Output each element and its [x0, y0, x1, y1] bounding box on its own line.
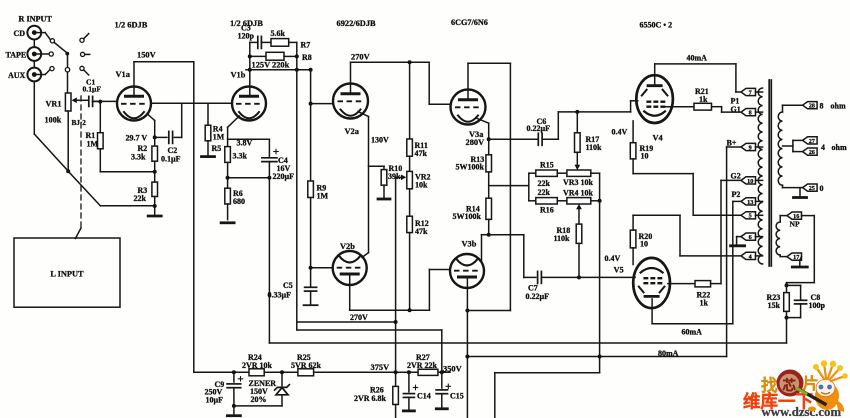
wire VR2 wiper drop to 375V row: [395, 177, 397, 372]
tube V2b: [333, 251, 367, 285]
svg-text:V2a: V2a: [345, 127, 360, 136]
svg-text:6: 6: [749, 234, 752, 241]
ground pin17: [799, 260, 801, 265]
svg-text:V4: V4: [653, 134, 664, 143]
svg-text:40mA: 40mA: [687, 54, 708, 63]
ladder left vertical: [249, 42, 251, 69]
node V3b cathode: [465, 309, 469, 313]
resistor R14 5W100k: [486, 198, 492, 219]
node R5 R6 junction: [226, 176, 230, 180]
wire V2b row up to V3b grid: [428, 270, 430, 311]
wire power row 375V: [194, 371, 450, 373]
zener diode 150V: [281, 372, 283, 387]
wire R20 to V5 cathode: [632, 248, 634, 265]
ground R10: [378, 198, 390, 201]
pin tag 13: [741, 198, 756, 205]
wire R19 to pin5 row: [632, 159, 634, 174]
pin tag 4: [741, 252, 756, 259]
svg-text:BJ·2: BJ·2: [72, 119, 87, 127]
wire R17 to VR3 wiper: [576, 152, 578, 166]
svg-text:P2: P2: [732, 190, 741, 199]
svg-text:2VR 22k: 2VR 22k: [407, 361, 438, 370]
svg-text:5W100k: 5W100k: [453, 212, 482, 221]
svg-text:110k: 110k: [586, 143, 603, 152]
wire V1a grid: [93, 100, 118, 102]
wire V3a plate drop to V3b cathode row: [509, 63, 511, 310]
pin tag 28: [803, 102, 818, 109]
svg-text:3.3k: 3.3k: [131, 153, 146, 162]
wire 270V rail: [351, 61, 430, 63]
wire row R8-to-350V y330: [297, 329, 442, 331]
svg-text:R INPUT: R INPUT: [19, 15, 53, 24]
wire power row right segment: [495, 372, 600, 374]
svg-text:V3b: V3b: [462, 240, 477, 249]
svg-text:1/2 6DJB: 1/2 6DJB: [115, 21, 148, 30]
wire bridge right vertical to supply row: [599, 173, 601, 372]
tube V2a: [333, 84, 368, 119]
pin tag 25: [803, 184, 818, 191]
svg-text:22k: 22k: [538, 188, 551, 197]
ground secondary 0 tap: [799, 188, 801, 196]
wire V3a cathode: [476, 118, 489, 123]
svg-text:0.1µF: 0.1µF: [83, 85, 102, 94]
svg-text:280V: 280V: [466, 138, 485, 147]
svg-text:VR4 10k: VR4 10k: [563, 189, 594, 198]
svg-text:1M: 1M: [87, 140, 99, 149]
svg-text:L INPUT: L INPUT: [50, 270, 84, 279]
wire VR2 wiper: [401, 174, 406, 180]
jack CD: [27, 26, 41, 40]
svg-text:4: 4: [821, 143, 825, 152]
svg-text:R15: R15: [540, 161, 554, 170]
tube V5 6550C: [633, 258, 670, 308]
svg-text:6550C • 2: 6550C • 2: [640, 21, 673, 30]
wire C2 branch from grid row: [181, 103, 183, 137]
pin tag 5: [741, 212, 756, 219]
svg-text:10: 10: [641, 152, 649, 161]
node R1 R2 junction: [153, 170, 157, 174]
svg-text:V1b: V1b: [231, 71, 246, 80]
selector switch pole and wiper: [65, 52, 69, 56]
svg-text:100p: 100p: [809, 301, 826, 310]
svg-text:G2: G2: [731, 172, 741, 181]
wire secondary mid tap: [783, 145, 793, 147]
ground C9: [233, 406, 235, 415]
resistor R26 2VR6.8k: [395, 372, 397, 386]
svg-text:10: 10: [747, 178, 753, 185]
svg-text:1M: 1M: [317, 192, 329, 201]
resistor R3 22k: [154, 172, 156, 182]
svg-text:100k: 100k: [45, 116, 62, 125]
wire NP bottom: [779, 255, 781, 257]
svg-text:B+: B+: [727, 139, 737, 148]
svg-text:V2b: V2b: [340, 242, 355, 251]
svg-text:350V: 350V: [443, 364, 462, 373]
wire pin6 ground: [737, 236, 741, 238]
resistor R11 47k: [409, 62, 411, 139]
svg-text:1k: 1k: [700, 299, 709, 308]
pin tag 9: [741, 143, 756, 150]
svg-text:2VR 6.8k: 2VR 6.8k: [354, 394, 387, 403]
svg-text:150V: 150V: [137, 51, 156, 60]
svg-text:1M: 1M: [213, 133, 225, 142]
wire V1b cathode: [228, 116, 240, 127]
svg-text:22k: 22k: [538, 179, 551, 188]
wire feedback to row y343: [786, 318, 788, 343]
wire 80mA row: [467, 356, 726, 358]
svg-text:R16: R16: [540, 206, 554, 215]
jack TAPE: [27, 47, 41, 61]
wire V3a plate top: [467, 63, 469, 99]
potentiometer VR4 10k: [557, 200, 567, 202]
svg-text:0.22µF: 0.22µF: [526, 292, 550, 301]
wire zener to C9 ground row: [234, 405, 282, 407]
pin tag 8: [741, 109, 756, 116]
wire R20 Z-path to pin4: [632, 215, 634, 230]
wire V1a cathode: [148, 115, 154, 121]
wire 3.8V node row: [228, 138, 270, 140]
svg-text:5VR 62k: 5VR 62k: [291, 361, 322, 370]
node R17 top: [575, 110, 579, 114]
svg-text:1k: 1k: [699, 95, 708, 104]
svg-text:17: 17: [793, 254, 799, 261]
pin tag 16: [787, 212, 802, 219]
wire V1a plate to 150V rail: [133, 62, 135, 96]
svg-text:110k: 110k: [554, 234, 571, 243]
svg-text:ohm: ohm: [831, 102, 846, 111]
capacitor C2 0.1uF: [168, 131, 170, 143]
wire V4 grid jog: [630, 101, 632, 112]
wire VR1 bottom: [67, 111, 69, 171]
pin tag 26: [803, 148, 818, 155]
resistor R25 5VR62k: [298, 369, 314, 376]
resistor R12 47k: [409, 189, 411, 216]
capacitor C1 0.1uF: [88, 96, 90, 106]
switch contact CD: [50, 39, 54, 43]
svg-text:27: 27: [809, 138, 815, 145]
NP winding: [776, 222, 780, 255]
svg-text:680: 680: [233, 197, 245, 206]
resistor R17 110k: [576, 112, 578, 133]
svg-text:C5: C5: [283, 281, 293, 290]
switch right contact 3: [80, 66, 84, 70]
svg-text:80mA: 80mA: [658, 349, 679, 358]
svg-text:5: 5: [749, 213, 752, 220]
wire V5 plate 60mA row: [651, 299, 653, 324]
wire V3b cathode drop: [466, 311, 468, 418]
svg-text:TAPE: TAPE: [6, 51, 27, 60]
wire CD to switch contact: [34, 32, 45, 34]
node V2a grid row: [309, 102, 313, 106]
node V2b grid: [309, 266, 313, 270]
svg-text:13: 13: [747, 199, 753, 206]
svg-text:29.7 V: 29.7 V: [126, 134, 148, 143]
svg-text:0: 0: [820, 184, 824, 193]
capacitor C4 220uF 16V: [268, 139, 270, 156]
switch right contact 1: [80, 38, 84, 42]
pin tag 27: [803, 137, 818, 144]
svg-text:5W100k: 5W100k: [456, 163, 485, 172]
transformer secondary winding: [778, 112, 782, 185]
wire R14 to C7 row: [489, 234, 524, 236]
svg-text:R5: R5: [212, 144, 222, 153]
node R14 bottom: [487, 233, 491, 237]
svg-text:3.3k: 3.3k: [233, 152, 248, 161]
wire row R8-to-VR2wiper y322: [297, 321, 396, 323]
jack AUX: [27, 68, 41, 82]
svg-text:25: 25: [809, 185, 815, 192]
wire bridge left vertical: [528, 173, 530, 201]
resistor R13 5W100k: [486, 155, 492, 172]
ground C14: [403, 409, 414, 412]
ground R6: [221, 221, 234, 224]
resistor R24 2VR10k: [249, 369, 264, 376]
wire V4 cathode to R19: [632, 121, 634, 143]
svg-text:NP: NP: [790, 220, 800, 229]
resistor R1 1M: [99, 102, 101, 133]
capacitor C6 0.22uF: [489, 138, 537, 140]
svg-text:7: 7: [749, 89, 752, 96]
svg-text:C14: C14: [417, 392, 431, 401]
svg-text:15k: 15k: [768, 301, 781, 310]
resistor R7 5.6k: [271, 39, 289, 47]
svg-text:0.1µF: 0.1µF: [161, 155, 181, 164]
pin tag 6: [741, 233, 756, 240]
svg-text:G1: G1: [731, 105, 741, 114]
node 125V plate row: [246, 69, 311, 71]
svg-text:C15: C15: [450, 392, 464, 401]
wire pin16 to feedback network: [802, 215, 815, 217]
capacitor C3 120p: [250, 41, 258, 43]
switch contact on pole line: [65, 68, 69, 72]
svg-text:39k: 39k: [388, 172, 401, 181]
tube V1b half 6DJB: [232, 87, 266, 121]
svg-text:22k: 22k: [134, 194, 147, 203]
capacitor C8 100p: [787, 284, 801, 286]
wire diagonal VR1 to R3 ground: [68, 171, 100, 206]
svg-text:V5: V5: [614, 266, 624, 275]
svg-text:AUX: AUX: [8, 71, 26, 80]
wire 130V jog to R10: [369, 165, 385, 167]
wire 270V rail corner to V3a grid: [428, 62, 430, 104]
box L INPUT: [14, 238, 120, 307]
pin tag 17: [787, 253, 802, 260]
wire C6 up to V4 grid row: [557, 112, 559, 139]
svg-text:47k: 47k: [415, 149, 428, 158]
resistor R18 110k: [576, 204, 582, 209]
wire R9 drop from 125V node: [310, 70, 312, 181]
svg-text:3.8V: 3.8V: [237, 139, 253, 148]
resistor R20 10: [630, 230, 636, 248]
svg-text:26: 26: [809, 149, 815, 156]
wire TAPE to switch contact: [34, 53, 49, 55]
svg-text:6922/6DJB: 6922/6DJB: [337, 19, 377, 28]
capacitor C14: [408, 372, 410, 392]
wire bridge left tap row: [489, 185, 529, 187]
switch contact AUX: [50, 67, 54, 71]
wire secondary bottom to pin25: [782, 185, 784, 187]
capacitor C9 10uF 250V: [233, 372, 235, 382]
wire AUX to switch contact: [34, 74, 45, 76]
wire V4 g1 row to R21: [666, 106, 694, 108]
wire V2a cathode down: [358, 112, 369, 117]
resistor R2 3.3k: [154, 137, 156, 146]
svg-text:CD: CD: [14, 29, 26, 38]
resistor R27 2VR22k: [418, 369, 438, 375]
tube V3b: [450, 254, 484, 288]
switch contact TAPE: [49, 52, 53, 56]
resistor R4 1M grid leak: [207, 103, 209, 125]
svg-text:VR1: VR1: [46, 100, 62, 109]
resistor R9 1M: [308, 181, 314, 198]
wire V5 g1 to R22: [668, 283, 695, 285]
wire R21 to pin8: [712, 106, 722, 108]
svg-text:125V 220k: 125V 220k: [252, 61, 290, 70]
wire V3b plate lead: [482, 234, 489, 236]
pin tag 10: [741, 177, 756, 184]
svg-text:375V: 375V: [371, 363, 390, 372]
resistor R22 1k: [695, 281, 711, 287]
svg-text:120p: 120p: [238, 32, 255, 41]
node 29.7V: [153, 135, 157, 139]
resistor R23 15k: [786, 285, 788, 292]
capacitor C7 0.22uF: [537, 271, 539, 283]
resistor R5 3.3k cathode: [225, 147, 231, 163]
wire global feedback row y343: [269, 342, 786, 344]
svg-text:8: 8: [820, 102, 824, 111]
svg-text:28: 28: [809, 103, 815, 110]
svg-text:60mA: 60mA: [682, 328, 703, 337]
wire V4 plate 40mA row: [654, 64, 656, 86]
tube V1a half 6DJB: [117, 87, 151, 121]
svg-text:47k: 47k: [415, 227, 428, 236]
potentiometer VR3 10k: [557, 172, 567, 174]
svg-text:5.6k: 5.6k: [271, 29, 286, 38]
dashed gang line to L INPUT: [80, 96, 82, 228]
wire secondary top to pin28: [782, 105, 784, 112]
tube V4 6550C: [636, 75, 673, 123]
node R18 bottom: [577, 275, 581, 279]
resistor R8 220k: [250, 55, 266, 57]
resistor R10 39k: [381, 170, 387, 186]
svg-text:220µF: 220µF: [273, 172, 295, 181]
resistor R21 1k: [694, 103, 712, 110]
svg-text:0.4V: 0.4V: [605, 254, 621, 263]
svg-text:V1a: V1a: [116, 70, 131, 79]
svg-text:0.4V: 0.4V: [612, 128, 628, 137]
svg-text:4: 4: [749, 253, 752, 260]
wire V5 grid row: [634, 276, 636, 278]
svg-text:2VR 10k: 2VR 10k: [242, 361, 273, 370]
svg-text:VR3 10k: VR3 10k: [563, 178, 594, 187]
wire V2a plate to 270V: [350, 62, 352, 93]
wire V2b plate row 270V: [349, 275, 351, 311]
ground R3: [154, 206, 156, 215]
capacitor C15: [441, 372, 443, 388]
wire V1a right side row to V1b grid: [151, 102, 232, 104]
svg-text:270V: 270V: [350, 313, 368, 322]
wire V1b plate lead: [249, 70, 251, 97]
svg-text:6CG7/6N6: 6CG7/6N6: [451, 18, 488, 27]
svg-text:10: 10: [640, 240, 648, 249]
resistor R19 10: [630, 143, 636, 159]
tube V3a: [451, 90, 486, 125]
wire AUX ground chain: [33, 81, 35, 134]
node R3 bottom: [153, 204, 157, 208]
wire pole to VR1: [67, 56, 69, 68]
svg-text:130V: 130V: [371, 136, 389, 145]
svg-text:ohm: ohm: [832, 143, 847, 152]
svg-text:20%: 20%: [251, 395, 267, 404]
transformer primary winding: [758, 88, 762, 264]
node feedback bottom: [785, 316, 789, 320]
ladder right vertical R8 to 350V node: [296, 42, 298, 330]
wire C4 bottom long feedback drop: [268, 178, 270, 343]
svg-text:270V: 270V: [351, 53, 370, 62]
svg-text:R8: R8: [302, 53, 312, 62]
resistor R16 22k: [536, 198, 558, 204]
node V3a cathode 280V: [487, 137, 491, 141]
svg-text:0.33µF: 0.33µF: [268, 291, 292, 300]
potentiometer VR2 10k: [407, 171, 413, 188]
wire C4 parallel row: [228, 177, 270, 179]
node V1a grid junction: [98, 100, 102, 104]
svg-text:10k: 10k: [415, 181, 428, 190]
resistor R15 22k: [536, 170, 558, 176]
wire jack chain CD-TAPE: [33, 40, 35, 48]
watermark dzsc logo: [743, 360, 848, 418]
wire 40mA to pin7: [735, 64, 737, 92]
wire drop off page left: [494, 373, 496, 418]
wire V3b cathode: [466, 278, 468, 311]
wire jack chain TAPE-AUX: [33, 61, 35, 68]
resistor R6 680: [227, 178, 229, 189]
potentiometer VR1 100k: [65, 93, 71, 111]
wire NP top: [780, 215, 787, 217]
svg-text:9: 9: [749, 144, 752, 151]
transformer core: [768, 80, 770, 266]
capacitor C5 0.33uF: [310, 268, 312, 287]
pin tag 7: [741, 88, 756, 95]
svg-text:0.22µF: 0.22µF: [527, 124, 551, 133]
svg-text:10µF: 10µF: [206, 396, 224, 405]
wire 150V rail down to supply row: [193, 62, 195, 373]
switch right contact 2: [81, 52, 85, 56]
node feedback top: [785, 283, 789, 287]
svg-text:8: 8: [749, 110, 752, 117]
ground C15: [436, 407, 447, 410]
svg-text:R7: R7: [301, 41, 311, 50]
ground R4: [202, 155, 215, 158]
